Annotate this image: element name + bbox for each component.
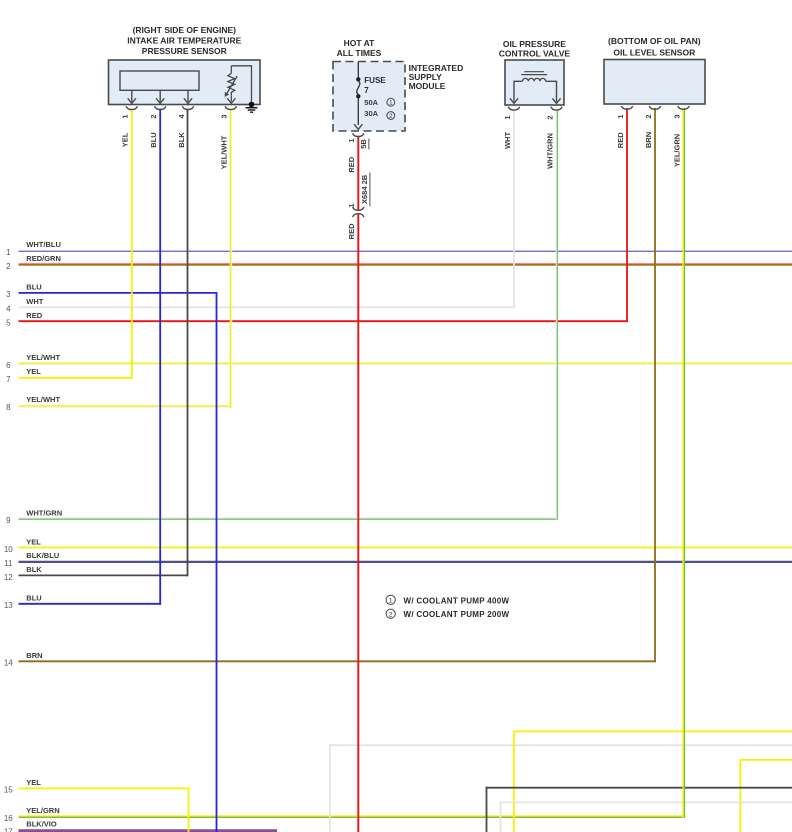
svg-text:FUSE: FUSE xyxy=(364,76,386,85)
svg-text:4: 4 xyxy=(6,305,11,314)
svg-text:WHT/GRN: WHT/GRN xyxy=(545,133,554,169)
svg-text:X684 2B: X684 2B xyxy=(360,174,369,204)
svg-text:RED: RED xyxy=(347,156,356,172)
svg-text:ALL TIMES: ALL TIMES xyxy=(337,48,382,58)
svg-text:CONTROL VALVE: CONTROL VALVE xyxy=(499,48,571,58)
svg-text:10: 10 xyxy=(4,545,13,554)
svg-text:5: 5 xyxy=(6,319,11,328)
svg-text:YEL: YEL xyxy=(26,367,41,376)
svg-text:RED/GRN: RED/GRN xyxy=(26,254,61,263)
svg-text:RED: RED xyxy=(616,132,625,148)
svg-text:16: 16 xyxy=(4,814,13,823)
svg-text:11: 11 xyxy=(4,559,13,568)
svg-text:YEL: YEL xyxy=(26,537,41,546)
svg-text:BLU: BLU xyxy=(26,283,41,292)
svg-text:YEL/GRN: YEL/GRN xyxy=(26,806,59,815)
svg-text:RED: RED xyxy=(347,223,356,239)
svg-text:BLK/BLU: BLK/BLU xyxy=(26,551,59,560)
svg-text:1: 1 xyxy=(503,115,512,119)
svg-text:BRN: BRN xyxy=(644,132,653,148)
svg-text:2: 2 xyxy=(644,114,653,118)
svg-text:1: 1 xyxy=(389,100,393,107)
svg-text:13: 13 xyxy=(4,601,13,610)
svg-text:YEL/WHT: YEL/WHT xyxy=(26,353,60,362)
svg-text:OIL LEVEL SENSOR: OIL LEVEL SENSOR xyxy=(613,47,695,57)
svg-text:WHT: WHT xyxy=(503,132,512,149)
svg-text:2: 2 xyxy=(389,113,393,120)
svg-text:7: 7 xyxy=(364,86,369,95)
svg-text:RED: RED xyxy=(26,311,42,320)
svg-text:4: 4 xyxy=(177,114,186,119)
svg-text:BRN: BRN xyxy=(26,651,42,660)
svg-text:W/ COOLANT PUMP 400W: W/ COOLANT PUMP 400W xyxy=(404,596,510,605)
svg-text:12: 12 xyxy=(4,573,13,582)
svg-text:YEL/WHT: YEL/WHT xyxy=(26,395,60,404)
svg-text:YEL: YEL xyxy=(121,132,130,147)
svg-text:1: 1 xyxy=(389,598,393,605)
svg-text:PRESSURE SENSOR: PRESSURE SENSOR xyxy=(142,46,227,56)
svg-text:BLU: BLU xyxy=(26,594,41,603)
svg-text:BLK: BLK xyxy=(177,132,186,148)
svg-text:1: 1 xyxy=(347,203,356,207)
svg-text:1: 1 xyxy=(121,114,130,118)
svg-text:W/ COOLANT PUMP 200W: W/ COOLANT PUMP 200W xyxy=(404,610,510,619)
svg-text:14: 14 xyxy=(4,659,13,668)
svg-text:YEL/WHT: YEL/WHT xyxy=(220,135,229,169)
svg-text:3: 3 xyxy=(220,114,229,118)
svg-text:2: 2 xyxy=(149,114,158,118)
svg-text:BLU: BLU xyxy=(149,132,158,147)
svg-text:7: 7 xyxy=(6,375,11,384)
svg-text:(RIGHT SIDE OF ENGINE): (RIGHT SIDE OF ENGINE) xyxy=(133,25,237,35)
svg-text:3: 3 xyxy=(6,290,11,299)
svg-text:3: 3 xyxy=(672,114,681,118)
svg-text:1: 1 xyxy=(616,114,625,118)
svg-text:15: 15 xyxy=(4,786,13,795)
svg-text:17: 17 xyxy=(4,827,13,832)
svg-text:BLK: BLK xyxy=(26,565,42,574)
svg-text:2: 2 xyxy=(6,262,11,271)
svg-text:1: 1 xyxy=(347,138,356,142)
svg-text:YEL: YEL xyxy=(26,778,41,787)
svg-text:MODULE: MODULE xyxy=(409,81,446,91)
svg-text:5B: 5B xyxy=(359,139,368,149)
svg-text:2: 2 xyxy=(389,611,393,618)
svg-text:30A: 30A xyxy=(364,109,378,118)
svg-text:WHT: WHT xyxy=(26,297,43,306)
svg-text:YEL/GRN: YEL/GRN xyxy=(672,134,681,167)
svg-text:(BOTTOM OF OIL PAN): (BOTTOM OF OIL PAN) xyxy=(608,36,701,46)
svg-text:WHT/GRN: WHT/GRN xyxy=(26,508,62,517)
svg-text:BLK/VIO: BLK/VIO xyxy=(26,819,57,828)
svg-text:INTAKE AIR TEMPERATURE: INTAKE AIR TEMPERATURE xyxy=(127,36,241,46)
svg-text:8: 8 xyxy=(6,403,11,412)
svg-text:50A: 50A xyxy=(364,98,378,107)
svg-text:WHT/BLU: WHT/BLU xyxy=(26,240,61,249)
svg-text:HOT AT: HOT AT xyxy=(344,38,375,48)
svg-text:2: 2 xyxy=(545,115,554,119)
svg-text:6: 6 xyxy=(6,361,11,370)
svg-text:9: 9 xyxy=(6,516,11,525)
svg-text:1: 1 xyxy=(6,248,11,257)
